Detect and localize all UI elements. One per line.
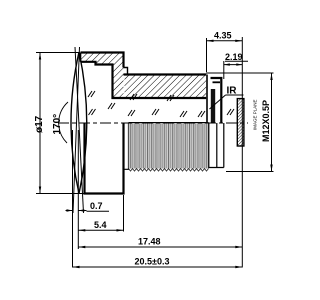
head inner cavity line [81,62,207,98]
FOV ray lower [75,47,84,213]
extension line barrel rear [206,38,208,72]
hatched head wall section upper [81,53,207,99]
extension line front vertex [72,130,74,268]
svg-text:ø17: ø17 [34,115,45,133]
FOV ray upper [73,47,80,213]
svg-text:20.5±0.3: 20.5±0.3 [135,257,170,267]
svg-text:4.35: 4.35 [214,31,232,41]
sensor cover glass [237,99,244,146]
image plane line [241,37,243,268]
head front face above centerline [80,53,82,62]
glass marks in bore [88,91,234,117]
rear cylinder below centerline [209,123,224,168]
170 degree arc [59,102,68,143]
svg-text:17.48: 17.48 [138,237,161,247]
centerline [58,122,248,124]
label IR with leader [210,86,244,110]
svg-text:0.7: 0.7 [90,201,103,211]
thread band [129,123,210,169]
dimension 20.5 [73,257,243,269]
front dome glass left surface [71,52,79,194]
thread crest wavy bottom [129,169,209,172]
barrel rear face above centerline [206,75,208,123]
dimension 4.35 [207,31,243,43]
head outer profile above centerline [81,53,207,75]
thread relief groove below centerline [124,123,129,169]
IR filter bar [211,89,215,123]
extension line rear element [223,61,225,79]
dimension 17.48 [78,237,242,249]
rear element lip [211,78,222,123]
dimension 0.7 [66,201,110,212]
rear element front surface [213,81,221,83]
svg-text:5.4: 5.4 [94,220,107,230]
dimension M12X0.5P [206,73,274,172]
thread relief notch [124,68,128,75]
head block below centerline [85,123,124,194]
dimension 2.19 [224,52,248,66]
extension line head rear [123,195,125,232]
svg-text:2.19: 2.19 [225,52,243,62]
extension line head face [77,130,79,249]
svg-text:IMAGE PLANE: IMAGE PLANE [253,99,258,130]
thread band top edge [129,122,209,124]
svg-text:170°: 170° [52,114,63,135]
svg-text:M12X0.5P: M12X0.5P [261,100,271,142]
dimension dia17 [34,53,84,194]
front dome glass right surface [79,52,87,194]
dimension 5.4 [78,220,123,232]
